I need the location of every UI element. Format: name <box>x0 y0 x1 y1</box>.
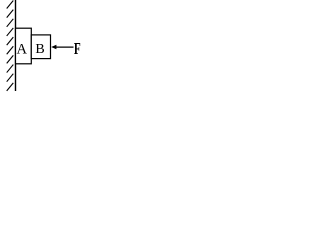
block A <box>16 28 32 64</box>
wall hatch <box>7 28 14 36</box>
wall hatch <box>7 19 14 27</box>
wall hatch <box>7 10 14 18</box>
label F <box>74 40 81 59</box>
arrow shaft <box>54 46 74 48</box>
svg-text:F: F <box>74 40 81 59</box>
wall hatch <box>7 46 14 54</box>
wall hatch <box>7 83 14 91</box>
force arrow <box>51 45 73 50</box>
wall hatch <box>7 74 14 82</box>
svg-text:B: B <box>35 42 44 57</box>
wall (vertical line) <box>15 0 17 91</box>
wall hatch <box>7 37 14 45</box>
block B <box>31 35 50 59</box>
wall hatch <box>7 55 14 63</box>
wall hatch <box>7 65 14 73</box>
wall hatch <box>7 1 14 9</box>
svg-text:A: A <box>17 41 28 57</box>
